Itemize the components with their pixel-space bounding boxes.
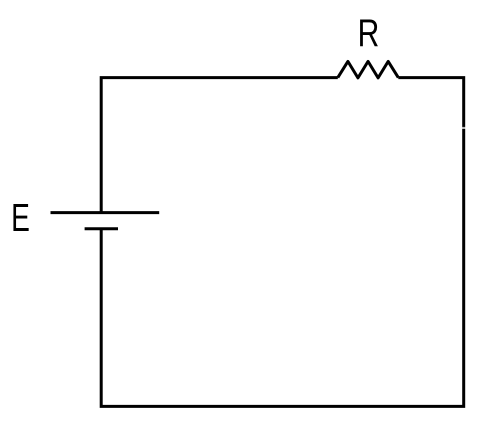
wire: top conductor from resistor left lead to top-left corner, down to battery positive plate <box>101 78 338 213</box>
svg-text:E: E <box>11 197 30 240</box>
wire joint gap on right conductor <box>462 127 466 129</box>
battery E: negative (short) plate <box>85 227 118 230</box>
svg-text:R: R <box>358 13 380 55</box>
battery E: positive (long) plate <box>51 211 160 214</box>
resistor R (zigzag) <box>338 61 399 78</box>
wire: resistor right lead, right conductor, bottom conductor, lower-left conductor up to battery negative plate <box>101 78 464 407</box>
